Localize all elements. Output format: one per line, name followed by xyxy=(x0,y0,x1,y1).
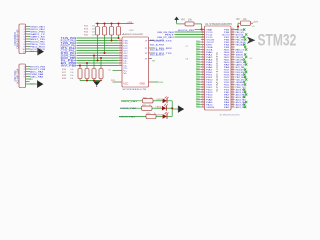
wire xyxy=(235,29,239,31)
junction xyxy=(93,55,95,57)
U1 pin 18 xyxy=(201,71,205,73)
no-connect flag xyxy=(196,96,201,98)
wire xyxy=(28,43,31,45)
wire xyxy=(175,31,205,33)
ground flag arrow right xyxy=(177,106,179,113)
svg-text:B12_A_CS2: B12_A_CS2 xyxy=(150,48,165,51)
U1 pin 56 xyxy=(231,49,235,51)
svg-text:LED3_PA3: LED3_PA3 xyxy=(120,115,137,118)
U1 pin 52 xyxy=(231,59,235,61)
U1 pin 10 xyxy=(201,51,205,53)
wire xyxy=(152,107,162,109)
no-connect flag xyxy=(196,51,201,53)
U8 pin 13 xyxy=(119,45,123,47)
wire to R17 xyxy=(86,63,88,69)
U8 pin 17 xyxy=(119,55,123,57)
cursor arrow xyxy=(247,37,255,44)
wire xyxy=(28,36,31,38)
no-connect flag xyxy=(196,44,201,46)
svg-text:+3V3: +3V3 xyxy=(253,22,259,24)
U1 pin 7 xyxy=(201,44,205,46)
U1 pin 45 xyxy=(231,76,235,78)
power flag arrow up xyxy=(174,17,179,20)
U1 pin 64 xyxy=(231,29,235,31)
svg-text:GND: GND xyxy=(30,84,35,86)
U1 pin 28 xyxy=(201,96,205,98)
U8 pin 14 xyxy=(119,47,123,49)
svg-text:BOOT0_PB2: BOOT0_PB2 xyxy=(178,30,195,32)
junction xyxy=(104,52,106,54)
U8 pin 11 xyxy=(119,40,123,42)
U1 pin 43 xyxy=(231,81,235,83)
no-connect flag xyxy=(196,94,201,96)
U1 pin 54 xyxy=(231,54,235,56)
ground flag arrow down xyxy=(93,80,100,82)
U1 pin 14 xyxy=(201,61,205,63)
U1 pin 3 xyxy=(201,34,205,36)
no-connect flag xyxy=(244,76,246,78)
no-connect flag xyxy=(243,58,245,60)
U8 pin 18 xyxy=(119,57,123,59)
U1 pin 61 xyxy=(231,36,235,38)
connector J2 body xyxy=(19,64,26,88)
resistor R13 10k xyxy=(104,24,106,27)
U1 pin 44 xyxy=(231,79,235,81)
no-connect flag xyxy=(244,106,246,108)
no-connect flag xyxy=(196,79,201,81)
no-connect flag xyxy=(243,103,245,105)
svg-text:STM32F103C8T6: STM32F103C8T6 xyxy=(220,114,241,116)
no-connect flag xyxy=(244,46,246,48)
U1 pin 51 xyxy=(231,61,235,63)
wire xyxy=(77,60,119,62)
svg-text:USBDM: USBDM xyxy=(206,107,214,109)
resistor R14 10k xyxy=(111,24,113,27)
wire xyxy=(119,115,146,117)
resistor R12 10k xyxy=(97,24,99,27)
U1 pin 46 xyxy=(231,74,235,76)
svg-text:LED2: LED2 xyxy=(156,106,162,108)
svg-text:B10_A_TX3: B10_A_TX3 xyxy=(150,39,165,42)
U1 pin 11 xyxy=(201,54,205,56)
no-connect flag xyxy=(196,61,201,63)
no-connect flag xyxy=(196,91,201,93)
svg-text:RST: RST xyxy=(165,34,175,36)
U1 pin 53 xyxy=(231,56,235,58)
wire xyxy=(175,36,205,38)
no-connect flag xyxy=(196,84,201,86)
no-connect flag xyxy=(243,28,245,30)
U1 pin 62 xyxy=(231,34,235,36)
wire xyxy=(152,47,154,49)
no-connect flag xyxy=(245,71,247,73)
svg-text:32: 32 xyxy=(202,106,204,108)
junction xyxy=(97,23,99,25)
U1 pin 6 xyxy=(201,41,205,43)
U8 pin 12 xyxy=(119,42,123,44)
wire xyxy=(152,52,154,54)
svg-text:GND: GND xyxy=(159,82,164,84)
U1 pin 5 xyxy=(201,39,205,41)
wire xyxy=(167,115,172,117)
U8 pin 20 xyxy=(119,62,123,64)
junction xyxy=(118,23,120,25)
U1 pin 29 xyxy=(201,99,205,101)
wire xyxy=(28,33,31,35)
U8 pin 16 xyxy=(119,52,123,54)
junction xyxy=(111,40,113,42)
svg-text:LED2_PA2: LED2_PA2 xyxy=(121,107,138,110)
svg-text:SP3232EEN-L/TR: SP3232EEN-L/TR xyxy=(122,89,147,91)
power rail wire +3V3 xyxy=(96,23,134,25)
no-connect flag xyxy=(196,66,201,68)
svg-text:21: 21 xyxy=(119,64,121,66)
wire to R18 xyxy=(93,56,95,69)
wire xyxy=(28,68,31,70)
no-connect flag xyxy=(245,33,247,35)
U1 pin 27 xyxy=(201,94,205,96)
junction xyxy=(100,80,102,82)
wire xyxy=(172,108,178,110)
U1 pin 13 xyxy=(201,59,205,61)
U1 pin 25 xyxy=(201,89,205,91)
no-connect flag xyxy=(196,56,201,58)
junction xyxy=(97,60,99,62)
wire R12 to row xyxy=(97,35,99,61)
wire xyxy=(77,40,119,42)
wire xyxy=(113,70,119,72)
no-connect flag xyxy=(244,61,246,63)
wire xyxy=(28,71,31,73)
wire xyxy=(28,66,31,68)
no-connect flag xyxy=(244,91,246,93)
wire xyxy=(171,101,173,117)
U1 pin 55 xyxy=(231,51,235,53)
resistor R4 10k xyxy=(183,23,186,25)
U1 pin 26 xyxy=(201,91,205,93)
U1 pin 49 xyxy=(231,66,235,68)
wire xyxy=(176,22,178,24)
J2 pin 7 wire xyxy=(26,81,30,83)
resistor R18 10k xyxy=(92,69,96,79)
svg-text:33: 33 xyxy=(232,106,234,108)
U8 pin 21 xyxy=(119,65,123,67)
LED diode LED2 xyxy=(162,106,166,111)
wire xyxy=(120,107,142,109)
U1 pin 21 xyxy=(201,79,205,81)
U1 pin 8 xyxy=(201,46,205,48)
junction xyxy=(111,23,113,25)
wire R13 to row xyxy=(104,35,106,53)
no-connect flag xyxy=(244,83,246,85)
wire xyxy=(195,29,205,31)
wire xyxy=(28,31,31,33)
svg-text:B13_A_SCK: B13_A_SCK xyxy=(150,53,165,56)
U1 pin 30 xyxy=(201,101,205,103)
svg-text:LED1: LED1 xyxy=(156,99,162,101)
wire to R19 xyxy=(100,58,102,69)
no-connect flag xyxy=(196,71,201,73)
resistor R22 1k xyxy=(142,106,153,110)
no-connect flag xyxy=(245,101,247,103)
U1 pin 47 xyxy=(231,71,235,73)
svg-text:LED3: LED3 xyxy=(156,115,162,117)
U1 pin 19 xyxy=(201,74,205,76)
wire xyxy=(28,73,31,75)
U1 pin 57 xyxy=(231,46,235,48)
IC U1 body xyxy=(205,26,232,110)
resistor R23 1k xyxy=(146,114,156,118)
wire xyxy=(77,50,119,52)
wire xyxy=(77,62,119,64)
no-connect flag xyxy=(196,41,201,43)
svg-text:nc: nc xyxy=(196,106,200,108)
U1 pin 48 xyxy=(231,69,235,71)
U1 pin 41 xyxy=(231,86,235,88)
junction xyxy=(237,26,239,28)
no-connect flag xyxy=(245,78,247,80)
svg-text:AMSCSD09P: AMSCSD09P xyxy=(122,33,144,36)
no-connect flag xyxy=(243,88,245,90)
wire xyxy=(167,100,172,102)
U1 pin 42 xyxy=(231,84,235,86)
U1 pin 50 xyxy=(231,64,235,66)
no-connect flag xyxy=(196,64,201,66)
wire xyxy=(167,107,173,109)
wire xyxy=(28,38,31,40)
U1 pin 2 xyxy=(201,31,205,33)
wire xyxy=(77,57,119,59)
wire to R16 xyxy=(79,66,81,69)
U1 pin 9 xyxy=(201,49,205,51)
ground rail wire xyxy=(80,80,101,82)
resistor R17 10k xyxy=(85,69,89,79)
U8 pin 19 xyxy=(119,60,123,62)
no-connect flag xyxy=(245,48,247,50)
connector J1 body xyxy=(19,24,26,54)
junction xyxy=(171,107,173,109)
wire xyxy=(175,34,205,36)
wire xyxy=(77,55,119,57)
J2 pin 8 GND wire xyxy=(26,83,38,85)
wire xyxy=(77,45,119,47)
no-connect flag xyxy=(196,81,201,83)
U1 pin 15 xyxy=(201,64,205,66)
svg-text:V-: V- xyxy=(123,73,128,75)
no-connect flag xyxy=(196,46,201,48)
U1 pin 20 xyxy=(201,76,205,78)
svg-text:LED1_PA1: LED1_PA1 xyxy=(122,100,139,103)
no-connect flag xyxy=(196,69,201,71)
U1 pin 34 xyxy=(231,104,235,106)
svg-text:U1 STM32F103C8T6: U1 STM32F103C8T6 xyxy=(205,23,233,26)
svg-text:INV_PB8: INV_PB8 xyxy=(61,65,78,67)
junction xyxy=(100,57,102,59)
svg-text:GND: GND xyxy=(30,51,35,53)
U1 pin 39 xyxy=(231,91,235,93)
resistor R19 10k xyxy=(99,69,103,79)
wire xyxy=(77,42,119,44)
no-connect flag xyxy=(243,81,245,83)
U1 pin 16 xyxy=(201,66,205,68)
junction xyxy=(118,37,120,39)
resistor R9 10k xyxy=(241,21,251,25)
no-connect flag xyxy=(244,53,246,55)
svg-text:STM32F103C8T6: STM32F103C8T6 xyxy=(215,51,219,92)
wire xyxy=(156,115,163,117)
no-connect flag xyxy=(196,49,201,51)
wire xyxy=(28,41,31,43)
no-connect flag xyxy=(196,74,201,76)
U1 pin 17 xyxy=(201,69,205,71)
no-connect flag xyxy=(196,54,201,56)
U1 pin 23 xyxy=(201,84,205,86)
junction xyxy=(79,65,81,67)
junction xyxy=(93,80,95,82)
U1 pin 38 xyxy=(231,94,235,96)
IC U8 body xyxy=(122,37,149,87)
wire xyxy=(28,48,31,50)
J2 pin 6 wire xyxy=(26,78,32,80)
wire xyxy=(152,81,159,83)
no-connect flag xyxy=(244,68,246,70)
svg-text:VCC: VCC xyxy=(123,82,128,85)
no-connect flag xyxy=(196,86,201,88)
svg-text:B11_A_RX3: B11_A_RX3 xyxy=(150,43,165,46)
ground flag arrow right xyxy=(36,80,38,87)
no-connect flag xyxy=(245,56,247,58)
U1 pin 58 xyxy=(231,44,235,46)
svg-text:STM32: STM32 xyxy=(258,32,297,50)
U1 pin 1 xyxy=(201,29,205,31)
LED diode LED3 xyxy=(163,114,167,119)
U1 pin 35 xyxy=(231,101,235,103)
junction xyxy=(201,29,203,31)
no-connect flag xyxy=(243,43,245,45)
U1 pin 36 xyxy=(231,99,235,101)
svg-text:+3V3: +3V3 xyxy=(127,22,133,24)
wire R15 to row xyxy=(118,35,120,38)
svg-text:GND: GND xyxy=(139,82,145,85)
U1 pin 24 xyxy=(201,86,205,88)
wire xyxy=(113,81,119,83)
U1 pin 22 xyxy=(201,81,205,83)
no-connect flag xyxy=(196,101,201,103)
wire xyxy=(152,40,154,42)
wire xyxy=(153,100,163,102)
wire xyxy=(77,47,119,49)
U1 pin 4 xyxy=(201,36,205,38)
U1 pin 60 xyxy=(231,39,235,41)
no-connect flag xyxy=(244,38,246,40)
no-connect flag xyxy=(196,89,201,91)
wire R14 to row xyxy=(111,35,113,41)
U1 pin 59 xyxy=(231,41,235,43)
wire xyxy=(28,76,31,78)
wire xyxy=(77,65,119,67)
wire xyxy=(28,46,31,48)
wire xyxy=(77,37,119,39)
U1 pin 32 xyxy=(201,106,205,108)
no-connect flag xyxy=(243,73,245,75)
junction xyxy=(86,62,88,64)
U1 pin 63 xyxy=(231,31,235,33)
no-connect flag xyxy=(196,104,201,106)
junction xyxy=(86,80,88,82)
resistor R21 1k xyxy=(143,99,154,103)
ground flag arrow right xyxy=(37,48,39,55)
LED diode LED1 xyxy=(163,99,167,104)
wire xyxy=(28,26,31,28)
U8 pin 15 xyxy=(119,50,123,52)
no-connect flag xyxy=(196,99,201,101)
no-connect flag xyxy=(196,59,201,61)
no-connect flag xyxy=(196,106,201,108)
resistor R16 10k xyxy=(78,69,82,79)
no-connect flag xyxy=(245,93,247,95)
wire xyxy=(121,100,143,102)
wire xyxy=(197,23,202,25)
U1 pin 40 xyxy=(231,89,235,91)
resistor R15 10k xyxy=(118,24,120,27)
U1 pin 31 xyxy=(201,104,205,106)
U1 pin 33 xyxy=(231,106,235,108)
U1 pin 12 xyxy=(201,56,205,58)
no-connect flag xyxy=(243,96,245,98)
junction xyxy=(104,23,106,25)
no-connect flag xyxy=(243,36,245,38)
no-connect flag xyxy=(196,76,201,78)
no-connect flag xyxy=(245,63,247,65)
wire xyxy=(77,52,119,54)
U1 pin 37 xyxy=(231,96,235,98)
wire xyxy=(28,28,31,30)
